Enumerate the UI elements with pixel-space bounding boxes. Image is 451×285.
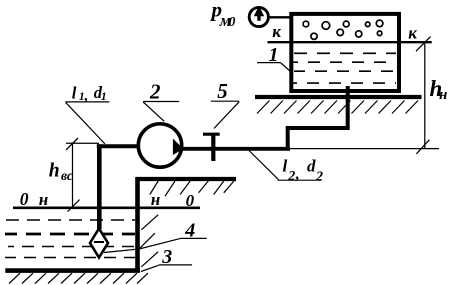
svg-text:0: 0 (186, 191, 195, 210)
svg-text:2: 2 (149, 80, 161, 104)
svg-text:1: 1 (101, 89, 107, 103)
svg-text:l: l (283, 157, 288, 176)
svg-text:н: н (439, 87, 447, 103)
svg-text:н: н (151, 190, 160, 209)
svg-text:вс: вс (61, 168, 73, 183)
svg-text:5: 5 (217, 79, 228, 103)
svg-text:0: 0 (20, 189, 29, 209)
svg-text:4: 4 (184, 220, 195, 242)
svg-text:h: h (49, 161, 60, 182)
svg-text:н: н (39, 190, 48, 209)
svg-text:к: к (272, 22, 281, 41)
svg-text:0: 0 (229, 14, 236, 29)
svg-text:2: 2 (287, 169, 295, 184)
svg-text:,: , (84, 88, 89, 104)
svg-text:2: 2 (315, 169, 323, 184)
svg-text:,: , (295, 166, 300, 183)
svg-text:к: к (408, 24, 417, 43)
svg-text:l: l (72, 83, 77, 102)
svg-text:d: d (307, 156, 316, 175)
svg-text:1: 1 (269, 44, 279, 66)
svg-text:3: 3 (161, 246, 172, 268)
